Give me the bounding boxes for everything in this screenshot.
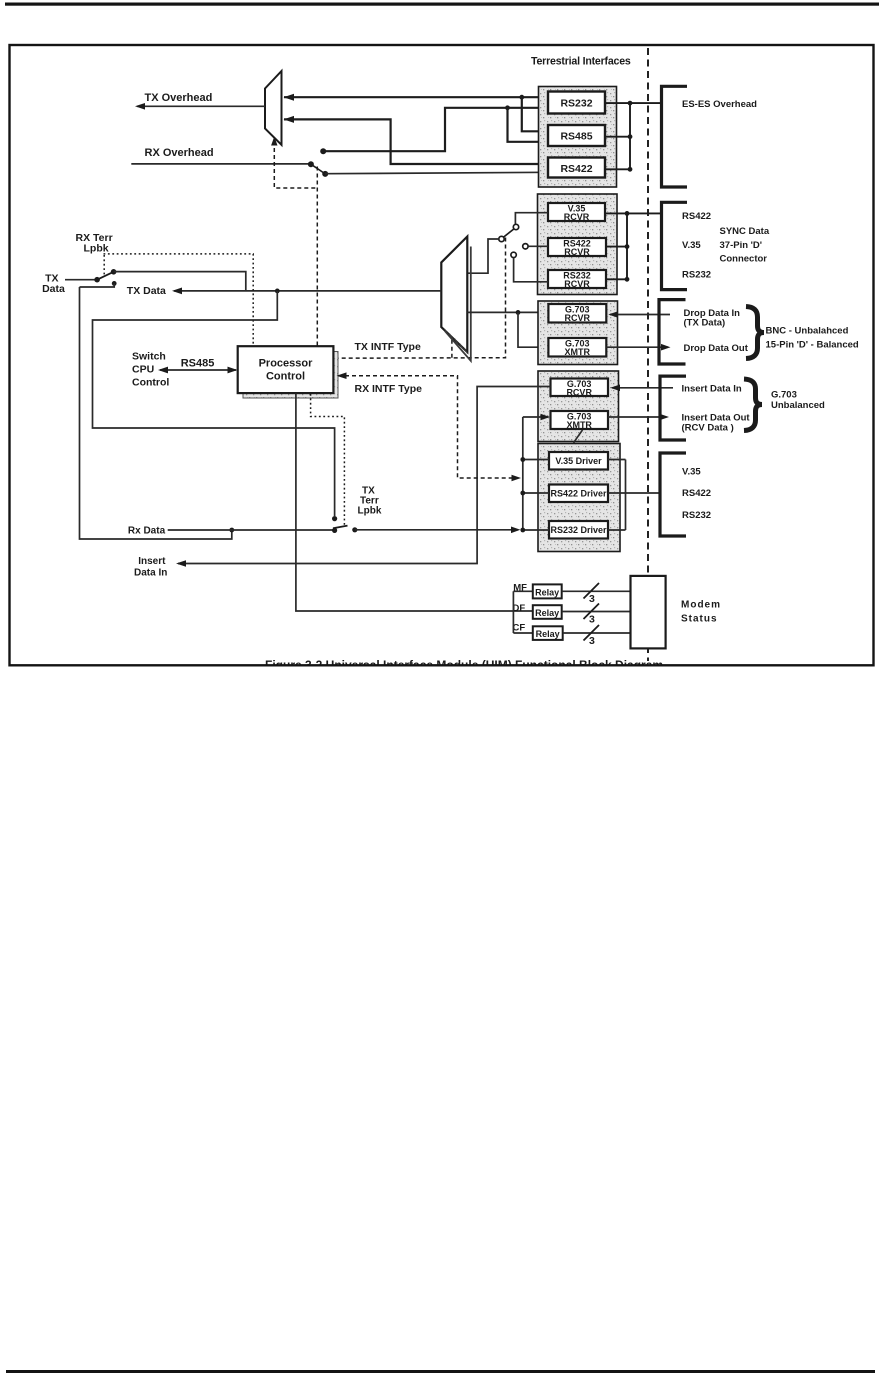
node TXD junction: [275, 289, 280, 294]
svg-text:TX INTF Type: TX INTF Type: [355, 341, 421, 353]
box RS232 RCVR: [548, 270, 606, 288]
svg-text:Control: Control: [132, 377, 169, 389]
mux M2 shadow: [445, 247, 471, 361]
svg-text:Insert Data In: Insert Data In: [682, 384, 742, 395]
svg-text:G.703: G.703: [771, 390, 797, 401]
wire contact b to RS422 RCVR: [528, 245, 548, 247]
wire J2 to RS485 input b: [508, 108, 549, 142]
wire relay MF to modem status: [562, 590, 631, 592]
box RS422 RCVR: [548, 238, 606, 256]
svg-text:Rx Data: Rx Data: [128, 525, 166, 536]
mux M2 hatch ticks: [445, 329, 468, 354]
svg-text:Data: Data: [42, 283, 65, 295]
svg-text:XMTR: XMTR: [565, 347, 591, 357]
wire switch-bottom to RS422 input b: [325, 172, 548, 173]
container box: SYNC receivers: [538, 194, 618, 295]
box relay DF: [533, 605, 562, 619]
svg-text:RS422 Driver: RS422 Driver: [550, 489, 607, 499]
switch S3 (TX data loopback): [94, 269, 116, 286]
box V.35 RCVR: [548, 203, 605, 221]
svg-text:RS422: RS422: [560, 163, 592, 175]
wire relay DF to modem status: [562, 611, 631, 613]
svg-text:Insert: Insert: [138, 556, 166, 567]
bracket ES-ES connector: [662, 86, 688, 187]
slash 3 MF: [584, 583, 600, 599]
box G.703 XMTR (drop): [548, 338, 606, 357]
wire PC to relay feed: [296, 394, 533, 612]
node J1: [519, 95, 524, 100]
svg-text:RX Overhead: RX Overhead: [145, 147, 214, 159]
wire mux M2 to G.703 drop RCVR: [467, 311, 548, 313]
dashed control to mux M1: [274, 141, 317, 346]
wire RX Overhead: [131, 163, 311, 165]
node DBb: [520, 491, 525, 496]
svg-text:RS232: RS232: [682, 270, 711, 281]
svg-text:ES-ES Overhead: ES-ES Overhead: [682, 99, 757, 110]
wire TX Data (mux M2 output): [174, 290, 441, 292]
wire Insert Data Out: [608, 416, 667, 418]
svg-text:SYNC Data: SYNC Data: [720, 226, 770, 237]
node B2c: [625, 277, 630, 282]
svg-text:RS232: RS232: [560, 98, 592, 110]
wire TX Overhead output: [137, 105, 265, 107]
svg-text:3: 3: [589, 614, 595, 626]
wire V.35 RCVR input: [515, 213, 548, 225]
svg-text:Control: Control: [266, 371, 305, 383]
node B1c: [628, 167, 633, 172]
driver output bus: [608, 460, 660, 531]
box RS485: [548, 125, 605, 146]
dashed TX INTF control riser: [337, 238, 506, 359]
bracket driver connector: [660, 453, 686, 536]
svg-text:RCVR: RCVR: [564, 212, 590, 222]
diagram frame border: [10, 45, 874, 665]
wire S3 upper contact into TX Data line: [114, 272, 246, 291]
dashed RX INTF control: [338, 376, 519, 478]
svg-text:RS422: RS422: [682, 488, 711, 499]
svg-text:TX Data: TX Data: [127, 285, 166, 297]
svg-text:RS485: RS485: [560, 131, 592, 143]
box relay CF: [533, 626, 563, 640]
container box: ES-ES interfaces: [539, 87, 617, 188]
white mask below frame (clips caption): [9, 666, 874, 696]
wire pivot to mux M2 input 1: [468, 239, 499, 273]
svg-text:CF: CF: [513, 623, 526, 634]
svg-text:Data In: Data In: [134, 568, 167, 579]
svg-text:Drop Data Out: Drop Data Out: [684, 343, 749, 354]
dotted RX Terr control: [104, 254, 254, 346]
svg-text:V.35: V.35: [682, 240, 701, 251]
switch S1 (RX overhead): [308, 148, 328, 177]
driver input bus: [523, 417, 549, 530]
svg-text:Unbalanced: Unbalanced: [771, 400, 825, 411]
svg-text:RCVR: RCVR: [566, 387, 592, 397]
wire Drop Data In: [610, 314, 670, 316]
top page rule: [5, 3, 879, 6]
node B1a: [628, 101, 633, 106]
svg-text:3: 3: [589, 593, 595, 605]
wire TX Data input stub: [65, 279, 97, 281]
svg-text:DF: DF: [513, 603, 526, 614]
container box: output drivers: [538, 444, 620, 552]
svg-text:RS485: RS485: [181, 358, 215, 370]
wire relay CF to modem status: [563, 632, 631, 634]
wire mux input 1 (from RS232): [284, 96, 548, 98]
wire S3 lower contact to left rail: [80, 283, 115, 287]
container box: G.703 drop: [538, 301, 618, 365]
wire switch-top riser to RS232 input b: [323, 108, 548, 151]
box V.35 Driver: [549, 452, 608, 470]
slash 3 CF: [584, 625, 600, 641]
svg-text:Switch: Switch: [132, 351, 166, 363]
svg-text:Status: Status: [681, 614, 718, 625]
svg-text:V.35 Driver: V.35 Driver: [555, 456, 602, 466]
bus B1 right of ES-ES group: [605, 103, 662, 169]
box relay MF: [533, 584, 562, 598]
bracket drop connector: [659, 300, 686, 364]
svg-text:Terrestrial Interfaces: Terrestrial Interfaces: [531, 56, 631, 68]
switch S2 contact b (RS422 RCVR): [523, 244, 528, 249]
wire Rx Data right segment to driver bus: [355, 529, 518, 531]
node B1b: [628, 134, 633, 139]
wire TXD junction to TX Terr contact: [93, 291, 335, 516]
mux M1 (TX overhead selector): [265, 71, 282, 145]
svg-text:TX Overhead: TX Overhead: [145, 92, 213, 104]
svg-text:Connector: Connector: [720, 254, 768, 265]
svg-text:Relay: Relay: [535, 587, 559, 597]
bracket insert connector: [660, 376, 686, 440]
switch S2 contact a: [513, 224, 518, 229]
box RS232 Driver: [549, 521, 608, 539]
box RS422: [548, 158, 605, 178]
svg-text:RS232: RS232: [682, 510, 711, 521]
node B2b: [625, 244, 630, 249]
svg-text:CPU: CPU: [132, 364, 154, 376]
node DBc: [520, 528, 525, 533]
box G.703 RCVR (insert): [551, 379, 609, 397]
wire Insert Data In (right): [612, 387, 673, 389]
box Modem Status: [631, 576, 666, 649]
svg-text:3: 3: [589, 635, 595, 647]
box U1 Processor Control: [238, 346, 334, 393]
processor control box shadow: [243, 352, 338, 399]
svg-text:Modem: Modem: [681, 600, 721, 611]
svg-text:Lpbk: Lpbk: [84, 243, 109, 255]
wire drop junction to G.703 XMTR: [518, 312, 546, 347]
svg-text:(RCV Data ): (RCV Data ): [682, 423, 734, 434]
brace BNC drop: [746, 307, 764, 359]
svg-text:BNC - Unbalahced: BNC - Unbalahced: [766, 326, 849, 337]
switch S4 (TX Terr Lpbk): [332, 516, 357, 533]
svg-text:37-Pin 'D': 37-Pin 'D': [720, 240, 763, 251]
svg-text:Processor: Processor: [259, 358, 314, 370]
svg-text:RCVR: RCVR: [565, 313, 591, 323]
svg-text:RS232 Driver: RS232 Driver: [550, 525, 607, 535]
slash 3 DF: [584, 604, 600, 620]
switch S2 contact c (RS232 RCVR): [511, 252, 516, 257]
svg-text:(TX Data): (TX Data): [684, 318, 726, 329]
node drop junction: [516, 310, 521, 315]
svg-text:RS422: RS422: [682, 211, 711, 222]
box RS422 Driver: [549, 485, 608, 503]
svg-text:Lpbk: Lpbk: [358, 506, 382, 517]
node DBa: [520, 457, 525, 462]
container box: G.703 insert: [538, 371, 619, 442]
relay feed bus: [513, 591, 532, 633]
brace G.703 insert: [744, 379, 762, 431]
bus B2 right of receiver group: [605, 213, 662, 279]
wire Drop Data Out: [606, 346, 668, 348]
svg-text:Relay: Relay: [536, 629, 560, 639]
wire contact c to RS232 RCVR: [514, 258, 548, 282]
svg-text:V.35: V.35: [682, 467, 701, 478]
switch S2 pivot: [499, 236, 504, 241]
svg-text:RCVR: RCVR: [564, 247, 590, 257]
svg-text:RCVR: RCVR: [564, 279, 590, 289]
dashed terrestrial separator line: [647, 48, 649, 661]
wire RS485 double arrow: [160, 369, 236, 371]
wire Rx Data left segment: [168, 529, 335, 531]
box RS232: [548, 92, 605, 114]
node Rx data junction: [229, 528, 234, 533]
svg-text:RX INTF Type: RX INTF Type: [355, 383, 423, 395]
wire left rail to Rx Data junction: [80, 287, 232, 539]
bottom page rule: [6, 1370, 875, 1373]
svg-text:15-Pin 'D' - Balanced: 15-Pin 'D' - Balanced: [766, 339, 859, 350]
node J2: [505, 105, 510, 110]
node B2a: [625, 211, 630, 216]
svg-text:XMTR: XMTR: [566, 420, 592, 430]
switch S2 blade: [504, 229, 514, 237]
wire mux input 2 (from RS422): [284, 119, 548, 164]
dotted PC to TX Terr switch: [311, 394, 345, 526]
box G.703 XMTR (insert): [551, 411, 609, 429]
wire J1 to RS485 input a: [522, 97, 548, 131]
wire insert RCVR output to Insert Data In line: [178, 387, 551, 564]
link insert XMTR to driver group: [574, 430, 583, 452]
box G.703 RCVR (drop): [548, 304, 606, 323]
mux M2 (receive interface selector): [441, 237, 467, 353]
svg-text:Relay: Relay: [535, 608, 559, 618]
bracket SYNC connector: [662, 202, 688, 289]
